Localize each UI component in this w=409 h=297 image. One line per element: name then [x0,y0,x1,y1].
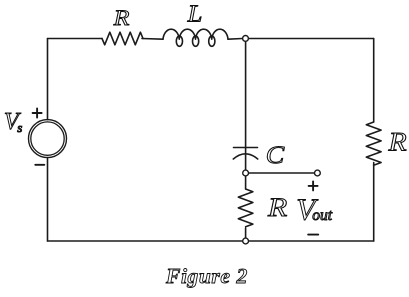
inductor L1 [163,29,228,39]
capacitor C1 top plate [234,147,258,149]
svg-text:out: out [312,207,333,224]
svg-text:Figure 2: Figure 2 [165,264,248,288]
wire right vertical lower [373,163,375,242]
wire left vertical upper [47,39,49,120]
terminal Vout+ open circle [315,170,321,176]
resistor R3 (right) [366,122,381,165]
node junction middle (node B) [243,170,249,176]
wire node to Vout terminal [249,172,315,174]
wire middle branch upper (node to capacitor) [245,42,247,153]
voltage source VS outer circle [29,120,67,158]
svg-text:L: L [187,1,203,27]
svg-text:R: R [267,193,288,222]
plus sign of Vout [309,181,318,190]
svg-text:C: C [266,140,285,169]
resistor R2 (middle) [238,189,253,227]
svg-text:R: R [387,128,406,157]
wire bottom-right horizontal [249,240,374,242]
wire inductor-to-node [228,38,242,41]
resistor R1 (top) [102,32,143,45]
minus sign of Vout [308,234,318,236]
svg-text:R: R [113,5,130,30]
wire resistor-to-inductor [142,38,163,41]
wire node-to-resistor middle [245,176,247,189]
wire resistor-to-bottom node [245,228,247,238]
svg-text:s: s [17,120,22,135]
wire left vertical lower [47,158,49,241]
wire bottom-left horizontal [48,240,243,242]
capacitor C1 bottom curved plate [233,154,257,159]
plus sign of source VS [33,109,42,118]
voltage source VS inner circle [31,122,64,155]
node junction bottom (node C) [243,238,249,244]
wire capacitor-to-node [245,155,247,170]
wire top-right horizontal [249,38,374,40]
wire right vertical upper [373,39,375,123]
wire top-left horizontal [48,38,103,40]
minus sign of source VS [35,164,44,166]
node junction top (circuit node A) [243,36,249,42]
